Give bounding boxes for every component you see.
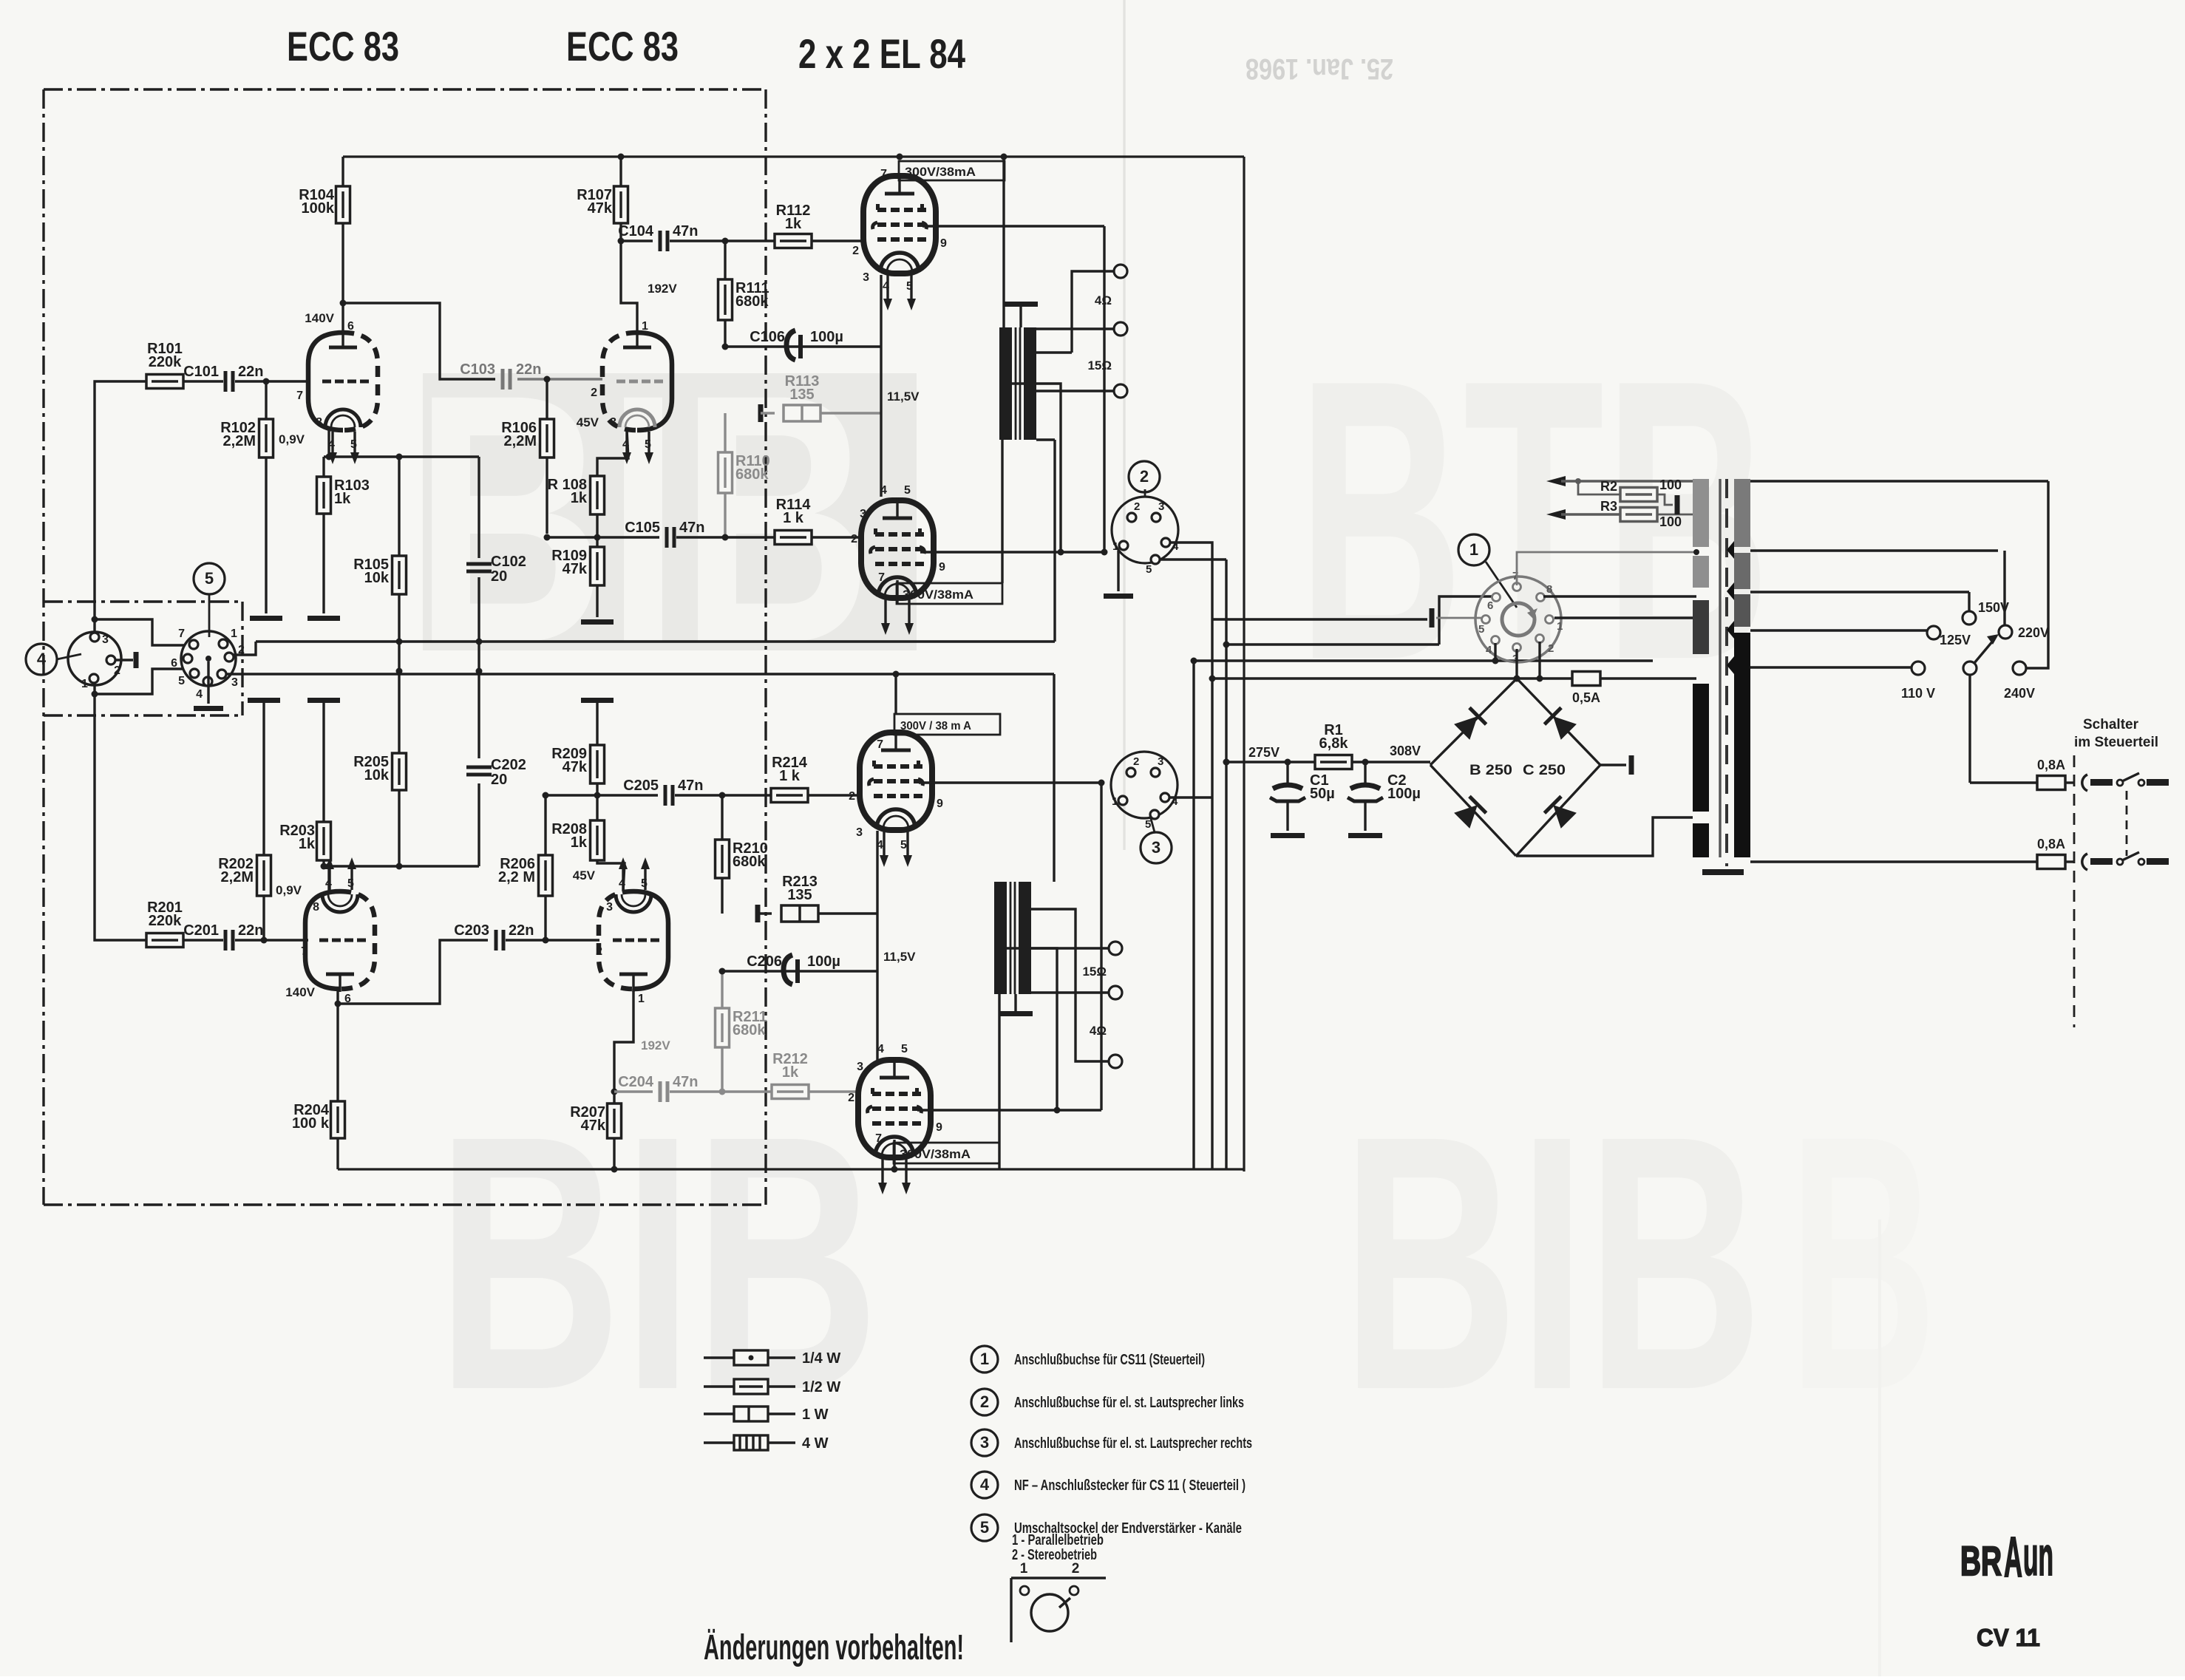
svg-text:5: 5 — [645, 438, 651, 451]
svg-text:300V / 38 m A: 300V / 38 m A — [900, 720, 971, 732]
svg-text:A: A — [2004, 1526, 2022, 1589]
svg-text:3: 3 — [856, 826, 863, 839]
svg-text:C203: C203 — [454, 922, 489, 939]
svg-text:22n: 22n — [509, 922, 534, 939]
svg-text:7: 7 — [878, 571, 885, 584]
svg-text:150V: 150V — [1978, 600, 2009, 615]
svg-text:9: 9 — [937, 798, 943, 810]
svg-text:1: 1 — [980, 1350, 989, 1368]
svg-text:1 - Parallelbetrieb: 1 - Parallelbetrieb — [1012, 1532, 1104, 1548]
svg-text:2: 2 — [596, 945, 602, 958]
svg-text:2: 2 — [1548, 642, 1554, 655]
svg-text:8: 8 — [316, 416, 322, 429]
svg-text:C202: C202 — [491, 757, 526, 773]
svg-text:1k: 1k — [334, 491, 351, 507]
svg-text:2: 2 — [980, 1392, 989, 1411]
svg-text:Änderungen vorbehalten!: Änderungen vorbehalten! — [704, 1628, 964, 1667]
svg-text:22n: 22n — [516, 361, 541, 378]
svg-text:10k: 10k — [364, 767, 390, 783]
svg-text:5: 5 — [205, 569, 214, 588]
svg-text:4: 4 — [877, 1043, 884, 1055]
svg-text:300V/38mA: 300V/38mA — [903, 588, 973, 602]
svg-text:100k: 100k — [302, 200, 335, 217]
svg-text:2: 2 — [1133, 755, 1139, 768]
svg-text:4: 4 — [196, 688, 203, 701]
svg-text:4Ω: 4Ω — [1095, 293, 1112, 307]
svg-text:240V: 240V — [2004, 686, 2035, 701]
svg-text:3: 3 — [606, 901, 613, 914]
svg-text:1k: 1k — [299, 836, 316, 852]
svg-text:192V: 192V — [648, 282, 677, 296]
svg-text:15Ω: 15Ω — [1082, 965, 1107, 979]
svg-text:1: 1 — [642, 320, 648, 333]
svg-text:7: 7 — [877, 738, 883, 751]
svg-text:4: 4 — [37, 650, 47, 668]
svg-text:C106: C106 — [750, 329, 785, 345]
svg-text:192V: 192V — [641, 1038, 670, 1052]
svg-text:C105: C105 — [625, 520, 660, 536]
svg-text:308V: 308V — [1390, 744, 1421, 758]
svg-text:2: 2 — [848, 1092, 854, 1104]
svg-text:C 250: C 250 — [1523, 763, 1566, 778]
svg-text:2: 2 — [851, 533, 857, 545]
svg-text:1k: 1k — [571, 490, 588, 506]
svg-text:ECC 83: ECC 83 — [566, 23, 679, 69]
svg-text:3: 3 — [1152, 838, 1161, 857]
svg-text:7: 7 — [296, 390, 303, 402]
svg-text:45V: 45V — [573, 868, 596, 882]
svg-text:6,8k: 6,8k — [1319, 735, 1349, 752]
svg-text:220k: 220k — [149, 354, 182, 370]
svg-text:0,9V: 0,9V — [276, 883, 302, 897]
svg-text:140V: 140V — [305, 311, 334, 325]
svg-text:2: 2 — [591, 387, 597, 399]
svg-text:1: 1 — [1557, 620, 1563, 633]
svg-text:9: 9 — [940, 237, 947, 250]
svg-text:4Ω: 4Ω — [1090, 1024, 1107, 1038]
svg-text:4: 4 — [883, 280, 889, 293]
svg-text:3: 3 — [610, 416, 616, 429]
svg-text:680k: 680k — [733, 854, 766, 870]
svg-text:22n: 22n — [238, 364, 263, 380]
svg-text:0,8A: 0,8A — [2037, 758, 2065, 772]
svg-text:2,2 M: 2,2 M — [498, 869, 535, 885]
svg-text:Anschlußbuchse für CS11 (Steue: Anschlußbuchse für CS11 (Steuerteil) — [1014, 1352, 1205, 1368]
svg-text:5: 5 — [641, 877, 648, 890]
svg-text:47k: 47k — [581, 1118, 606, 1134]
svg-text:3: 3 — [863, 271, 869, 284]
svg-text:C104: C104 — [618, 223, 654, 239]
svg-text:1 k: 1 k — [779, 768, 801, 784]
svg-text:4: 4 — [880, 484, 887, 497]
svg-text:3: 3 — [857, 1061, 863, 1073]
svg-text:C102: C102 — [491, 554, 526, 570]
svg-text:2: 2 — [238, 644, 245, 656]
svg-text:CV 11: CV 11 — [1977, 1624, 2040, 1651]
svg-text:NF – Anschlußstecker für CS 1: NF – Anschlußstecker für CS 11 ( Steuert… — [1014, 1477, 1246, 1494]
svg-text:220k: 220k — [149, 913, 182, 929]
svg-text:1: 1 — [231, 628, 237, 640]
svg-text:0,5A: 0,5A — [1572, 690, 1600, 705]
svg-text:BR: BR — [1960, 1537, 2002, 1584]
svg-text:C101: C101 — [183, 364, 219, 380]
svg-text:6: 6 — [1487, 599, 1493, 612]
svg-text:C204: C204 — [618, 1074, 654, 1090]
svg-text:5: 5 — [906, 280, 913, 293]
svg-text:22n: 22n — [238, 922, 263, 939]
svg-text:5: 5 — [904, 484, 911, 497]
svg-text:C201: C201 — [183, 922, 219, 939]
svg-text:2 x 2 EL 84: 2 x 2 EL 84 — [798, 30, 965, 77]
svg-text:B 250: B 250 — [1469, 763, 1512, 778]
svg-text:1: 1 — [638, 993, 645, 1005]
svg-text:ECC 83: ECC 83 — [287, 23, 399, 69]
svg-text:un: un — [2023, 1526, 2053, 1587]
svg-text:8: 8 — [1546, 583, 1552, 596]
svg-text:11,5V: 11,5V — [883, 950, 916, 964]
svg-text:47n: 47n — [673, 1074, 698, 1090]
svg-text:125V: 125V — [1940, 633, 1971, 647]
svg-text:100 k: 100 k — [292, 1115, 330, 1132]
svg-text:1 k: 1 k — [783, 510, 804, 526]
svg-text:45V: 45V — [577, 415, 599, 429]
svg-text:100µ: 100µ — [810, 329, 843, 345]
svg-text:220V: 220V — [2018, 625, 2049, 640]
svg-text:47k: 47k — [563, 561, 588, 577]
svg-text:4: 4 — [980, 1475, 990, 1494]
svg-text:0,8A: 0,8A — [2037, 837, 2065, 851]
svg-text:6: 6 — [347, 320, 354, 333]
svg-text:im Steuerteil: im Steuerteil — [2074, 735, 2158, 750]
svg-text:Anschlußbuchse für el. st. La: Anschlußbuchse für el. st. Lautsprecher … — [1014, 1395, 1244, 1411]
svg-text:C103: C103 — [460, 361, 495, 378]
svg-text:4: 4 — [1486, 644, 1492, 656]
svg-text:25. Jan. 1968: 25. Jan. 1968 — [1246, 52, 1393, 85]
svg-text:110 V: 110 V — [1901, 686, 1935, 701]
svg-text:1: 1 — [81, 678, 88, 690]
svg-text:8: 8 — [313, 901, 319, 914]
svg-text:11,5V: 11,5V — [887, 390, 920, 404]
svg-text:9: 9 — [939, 561, 945, 574]
svg-text:3: 3 — [1158, 500, 1164, 513]
svg-text:1: 1 — [1112, 795, 1118, 808]
svg-text:1k: 1k — [782, 1064, 799, 1081]
svg-text:2: 2 — [114, 664, 120, 677]
svg-text:3: 3 — [231, 676, 238, 689]
svg-text:5: 5 — [350, 438, 357, 451]
svg-text:100µ: 100µ — [1387, 786, 1421, 802]
svg-text:Schalter: Schalter — [2083, 717, 2139, 732]
svg-text:BIB: BIB — [436, 1060, 880, 1465]
svg-text:140V: 140V — [285, 985, 315, 999]
svg-text:0,9V: 0,9V — [279, 432, 305, 446]
svg-text:4 W: 4 W — [802, 1435, 829, 1452]
svg-text:1: 1 — [1020, 1561, 1028, 1577]
svg-text:2: 2 — [1072, 1561, 1080, 1577]
svg-text:BIB: BIB — [1342, 1060, 1763, 1465]
svg-text:7: 7 — [875, 1132, 882, 1145]
svg-text:C206: C206 — [747, 953, 782, 970]
svg-text:5: 5 — [980, 1518, 989, 1537]
svg-text:50µ: 50µ — [1310, 786, 1335, 802]
svg-text:20: 20 — [491, 568, 507, 585]
svg-text:3: 3 — [102, 633, 109, 646]
svg-text:47n: 47n — [673, 223, 698, 239]
svg-text:9: 9 — [936, 1121, 942, 1134]
svg-text:5: 5 — [900, 839, 907, 851]
svg-text:10k: 10k — [364, 570, 390, 586]
svg-text:100: 100 — [1659, 477, 1682, 492]
svg-text:1: 1 — [1469, 540, 1478, 559]
svg-text:300V/38mA: 300V/38mA — [900, 1147, 971, 1161]
svg-text:Anschlußbuchse für el. st. La: Anschlußbuchse für el. st. Lautsprecher … — [1014, 1435, 1252, 1452]
svg-text:1/2 W: 1/2 W — [802, 1379, 840, 1395]
svg-text:2: 2 — [1134, 500, 1140, 513]
svg-text:3: 3 — [980, 1433, 989, 1452]
svg-text:100: 100 — [1659, 514, 1682, 529]
svg-text:15Ω: 15Ω — [1087, 358, 1112, 373]
svg-text:275V: 275V — [1248, 745, 1280, 760]
svg-text:5: 5 — [347, 877, 354, 890]
svg-text:R2: R2 — [1600, 479, 1617, 494]
svg-text:1/4 W: 1/4 W — [802, 1350, 840, 1367]
svg-text:6: 6 — [171, 657, 177, 670]
svg-text:2: 2 — [849, 790, 855, 803]
svg-text:2: 2 — [852, 245, 859, 257]
svg-text:47n: 47n — [679, 520, 704, 536]
svg-text:5: 5 — [1478, 623, 1484, 636]
svg-text:135: 135 — [789, 387, 814, 403]
svg-text:1k: 1k — [785, 216, 802, 232]
svg-text:2: 2 — [1140, 467, 1149, 486]
svg-text:2,2M: 2,2M — [223, 433, 256, 449]
svg-text:47k: 47k — [563, 759, 588, 775]
svg-text:47k: 47k — [588, 200, 613, 217]
svg-text:3: 3 — [1158, 755, 1163, 768]
svg-text:100µ: 100µ — [807, 953, 840, 970]
svg-text:680k: 680k — [735, 466, 769, 483]
svg-text:5: 5 — [901, 1043, 908, 1055]
svg-text:135: 135 — [787, 887, 812, 903]
svg-text:2,2M: 2,2M — [504, 433, 537, 449]
svg-text:7: 7 — [301, 945, 307, 958]
svg-text:5: 5 — [178, 675, 185, 687]
svg-text:5: 5 — [1146, 563, 1152, 576]
svg-text:680k: 680k — [733, 1022, 766, 1038]
svg-text:R3: R3 — [1600, 499, 1617, 514]
svg-text:B: B — [1789, 1060, 1937, 1465]
svg-text:47n: 47n — [678, 778, 703, 794]
svg-text:1 W: 1 W — [802, 1407, 829, 1423]
svg-text:7: 7 — [880, 168, 887, 180]
svg-text:1k: 1k — [571, 834, 588, 851]
svg-text:7: 7 — [178, 628, 185, 640]
svg-text:C205: C205 — [623, 778, 659, 794]
svg-text:3: 3 — [860, 508, 866, 520]
svg-text:20: 20 — [491, 772, 507, 788]
svg-text:300V/38mA: 300V/38mA — [905, 165, 976, 179]
svg-text:680k: 680k — [735, 293, 769, 310]
svg-text:2,2M: 2,2M — [221, 869, 254, 885]
